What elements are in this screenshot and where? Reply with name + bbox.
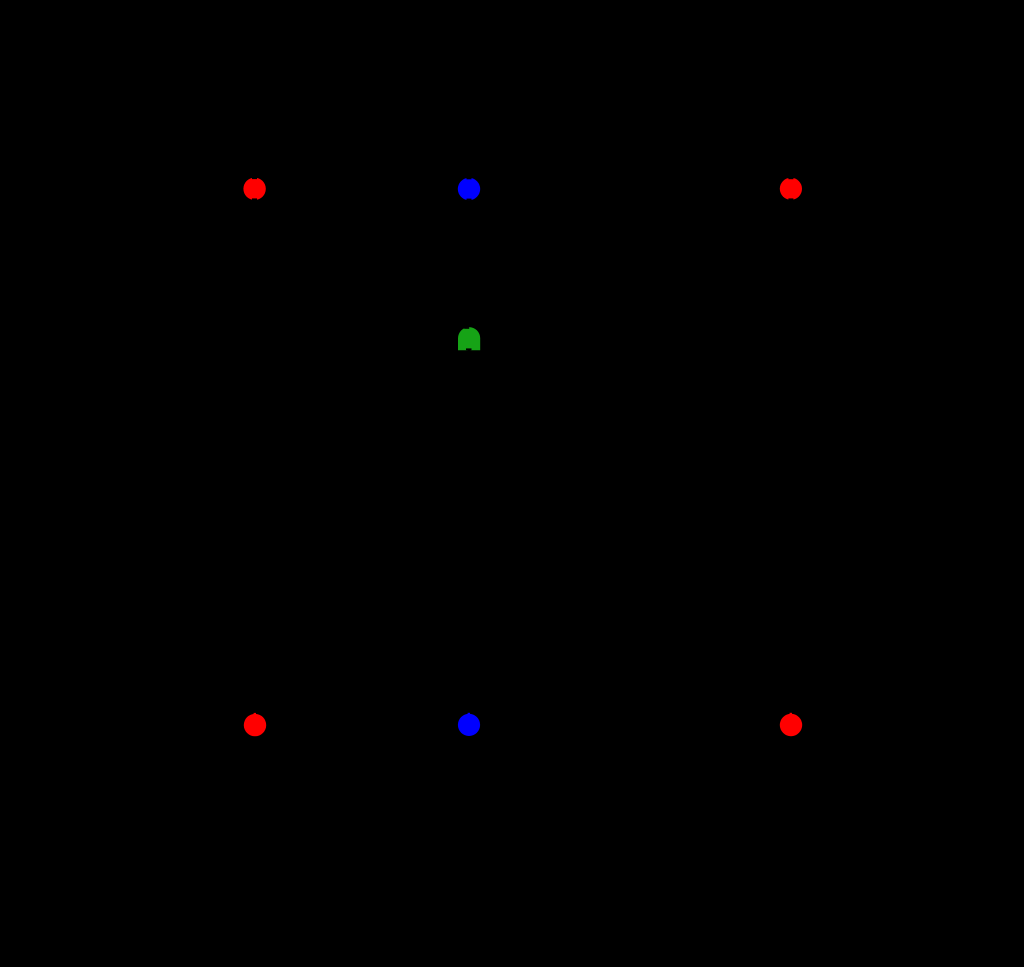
resistor R1 [785, 420, 828, 500]
svg-text:R2: R2 [485, 532, 506, 549]
node C [780, 177, 802, 200]
svg-text:V1: V1 [205, 431, 225, 448]
LED D1 (green indicator) [458, 327, 511, 350]
svg-text:R1: R1 [807, 452, 828, 469]
battery V1 [205, 400, 275, 480]
node A [243, 177, 265, 200]
wire bottom rail D-E [255, 725, 469, 728]
node B [458, 178, 480, 201]
svg-text:D1: D1 [490, 331, 511, 348]
wire right branch upper [790, 189, 793, 420]
wire left branch lower [254, 480, 257, 726]
wire left branch upper [254, 189, 257, 400]
wire top rail B-C [469, 188, 791, 191]
node E [458, 713, 480, 736]
node F [780, 713, 802, 736]
wire middle branch lower [468, 580, 471, 726]
wire middle branch upper [468, 189, 471, 327]
wire middle branch mid [468, 350, 471, 500]
resistor R2 [463, 500, 506, 580]
wire bottom rail E-F [469, 725, 791, 728]
node D [244, 713, 266, 736]
wire top rail A-B [255, 188, 469, 191]
wire right branch lower [790, 500, 793, 726]
